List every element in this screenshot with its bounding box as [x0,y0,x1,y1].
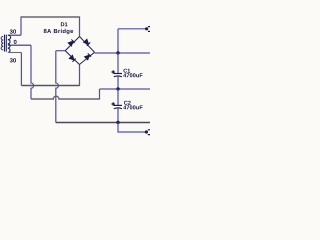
wire: down to bridge top vertex [79,17,81,37]
diode D1d (bottom-right edge, cathode at right vertex) [85,53,92,60]
wire: 0V rail right portion [100,88,151,90]
wire: +V branch to output terminal [118,28,147,30]
capacitor C2 vertical leads [117,89,119,105]
wire: 0V rail left portion with hop over -V vertical [31,96,100,99]
wire: +V branch up [117,29,119,54]
wire: top rail to bridge [21,16,80,18]
label 0 (center tap) [14,40,17,44]
diode D1b (top-right edge, cathode at right vertex) [84,39,91,46]
wire: vertical up from top tap [20,17,22,35]
capacitor C1 plates [114,73,122,75]
label D1 [61,22,68,26]
node: -V output terminal dot [145,130,148,133]
label C1 [123,69,130,73]
label 30 (top tap) [10,29,16,33]
wire: -V vertical with hop over AC2 rail [56,51,59,123]
capacitor C2 plates [114,104,122,106]
diode D1c (bottom-left edge, cathode at bottom vertex) [69,55,76,62]
wire: AC2 rail to bridge bottom [21,85,79,87]
wire: center tap stub [8,44,31,46]
C1 plus sign [112,70,115,73]
wire: vertical B from center tap with hop over AC2 rail [31,45,34,99]
wire: bottom tap stub [8,52,22,54]
diode D1a (top-left edge, cathode at top vertex) [68,39,75,46]
wire: +V rail from bridge right vertex [95,52,151,54]
label C2 [124,101,131,105]
label C1 value [123,73,142,77]
node: 0V rail junction [116,87,119,90]
wire: up to bridge bottom vertex [79,65,81,87]
capacitor C1 vertical leads [117,53,119,73]
terminal edge marks top right [148,27,150,32]
wire: top tap stub [8,34,21,36]
wire: -V horizontal into bridge left vertex [56,50,65,52]
node: -V rail junction [116,121,119,124]
label 30 (bottom tap) [10,58,16,62]
transformer core [5,35,7,52]
label C2 value [123,105,142,109]
wire: -V bottom rail [56,122,150,124]
wire: vertical A from bottom tap [20,53,22,86]
transformer secondary winding [8,35,11,52]
bridge rectifier D1 diamond edges [65,37,94,65]
wire: -V drop to output terminal [118,123,146,133]
label 8A Bridge [44,29,73,35]
transformer T primary winding [1,37,3,50]
wire: 0V rail step up [99,89,101,100]
node: +V output terminal dot [145,27,148,30]
C2 plus sign [112,102,115,105]
node: +V rail junction [116,51,119,54]
terminal edge marks bottom right [148,130,150,135]
